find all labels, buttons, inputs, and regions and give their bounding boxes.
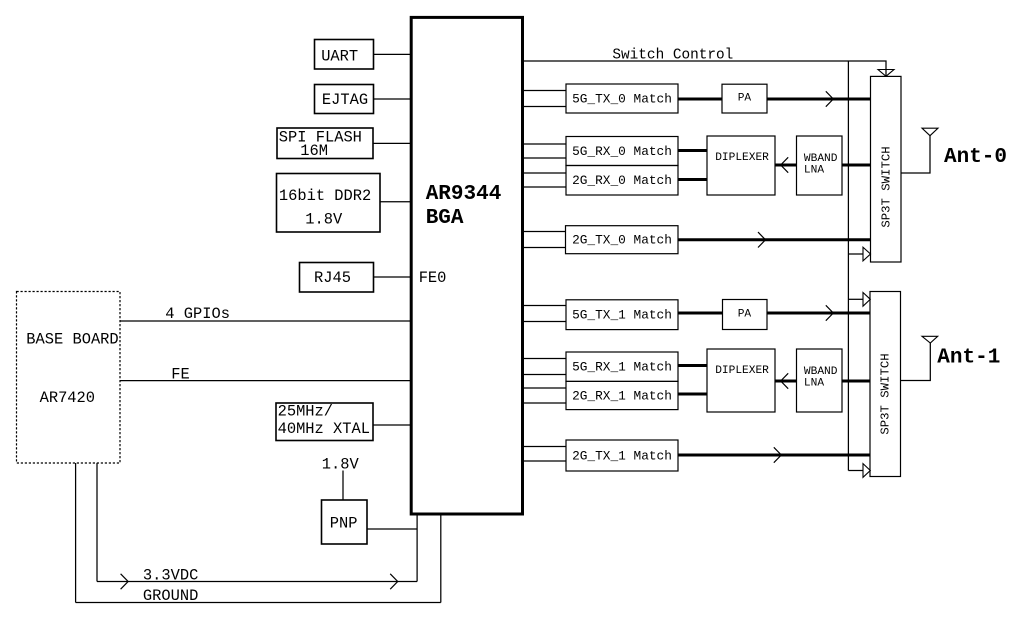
wire 4 GPIOs BASE BOARD to U1 <box>120 320 411 322</box>
block U1 AR9344 BGA <box>411 17 522 514</box>
svg-text:UART: UART <box>321 48 358 66</box>
wire PA to SW2 <box>767 312 870 315</box>
wire GROUND rail <box>76 602 441 604</box>
wire U1 to 5G_RX_1 Match pin 1 <box>523 358 566 360</box>
wire 2G_RX_0 Match to DIPLEXER <box>678 178 707 181</box>
switch SP3T SWITCH SW1 <box>871 76 902 262</box>
svg-text:25MHz/: 25MHz/ <box>278 403 333 421</box>
amplifier WBAND LNA (chain 1) <box>797 349 843 412</box>
wire U1 to 5G_RX_0 Match pin 1 <box>523 143 566 145</box>
wire PNP to U1 node <box>367 528 417 530</box>
wire U1 to 5G_TX_0 Match pin 1 <box>523 90 566 92</box>
arrow on PA wire <box>826 91 834 106</box>
wire control branch SW2 lower <box>848 470 863 472</box>
svg-text:LNA: LNA <box>804 377 824 389</box>
antenna Ant-1 <box>922 336 938 343</box>
arrow 3.3VDC right <box>390 574 398 589</box>
wire U1 to 5G_RX_0 Match pin 2 <box>523 157 566 159</box>
wire UART to U1 <box>374 53 412 55</box>
wire SW1 to antenna 0 <box>901 136 930 173</box>
svg-text:EJTAG: EJTAG <box>322 91 368 109</box>
wire 2G_TX_1 Match to SW2 <box>678 454 870 457</box>
wire switch control vertical bus <box>847 61 849 471</box>
wire 2G_RX_1 Match to DIPLEXER <box>678 393 707 396</box>
svg-text:SP3T SWITCH: SP3T SWITCH <box>879 146 893 227</box>
arrow switch control into SW1 top <box>878 70 894 77</box>
svg-text:WBAND: WBAND <box>804 153 838 165</box>
wire U1 to 2G_RX_0 Match pin 2 <box>523 186 566 188</box>
wire U1 to 5G_RX_1 Match pin 2 <box>523 374 566 376</box>
svg-text:5G_TX_1 Match: 5G_TX_1 Match <box>572 308 672 323</box>
wire 5G_TX_1 Match to PA <box>678 312 723 315</box>
arrow control into SW1 left <box>863 247 871 261</box>
wire 5G_RX_1 Match to DIPLEXER <box>678 364 707 367</box>
svg-text:16bit DDR2: 16bit DDR2 <box>279 187 371 205</box>
wire FE BASE BOARD to U1 <box>120 380 411 382</box>
wire U1 to 2G_RX_1 Match pin 1 <box>523 387 566 389</box>
block EJTAG <box>315 85 374 114</box>
wire SPI FLASH to U1 <box>373 142 411 144</box>
wire switch control horizontal <box>524 61 886 76</box>
wire 1.8V to PNP <box>342 471 344 501</box>
wire U1 to 5G_TX_0 Match pin 2 <box>523 106 566 108</box>
amplifier PA (chain 0) <box>722 84 767 113</box>
wire BASE BOARD to 3.3VDC <box>96 463 98 582</box>
svg-text:WBAND: WBAND <box>804 366 838 378</box>
svg-text:FE0: FE0 <box>419 269 447 287</box>
switch SP3T SWITCH SW2 <box>870 292 901 477</box>
wire PA to SW1 <box>767 98 871 101</box>
svg-text:1.8V: 1.8V <box>322 456 360 474</box>
svg-text:5G_RX_0 Match: 5G_RX_0 Match <box>572 144 672 159</box>
svg-text:2G_TX_1 Match: 2G_TX_1 Match <box>572 449 672 464</box>
svg-text:BGA: BGA <box>426 207 464 230</box>
wire U1 to 2G_RX_1 Match pin 2 <box>523 402 566 404</box>
svg-text:16M: 16M <box>300 142 328 160</box>
block SPI FLASH 16M <box>277 128 373 160</box>
wire WBAND LNA to DIPLEXER chain 1 <box>775 380 797 383</box>
wire 2G_TX_0 Match to SW1 <box>678 238 871 241</box>
block 5G_TX_0 Match <box>566 84 678 113</box>
svg-text:LNA: LNA <box>804 164 824 176</box>
arrow 3.3VDC left <box>121 574 129 589</box>
svg-text:5G_RX_1 Match: 5G_RX_1 Match <box>572 360 672 375</box>
block 5G_RX_1 Match <box>566 352 678 381</box>
block 2G_RX_1 Match <box>566 381 678 409</box>
wire node to U1 bottom <box>416 515 418 582</box>
svg-text:DIPLEXER: DIPLEXER <box>715 152 769 164</box>
svg-text:2G_TX_0 Match: 2G_TX_0 Match <box>572 233 672 248</box>
svg-text:PA: PA <box>738 309 752 321</box>
wire 5G_TX_0 Match to PA <box>678 98 722 101</box>
svg-text:PNP: PNP <box>330 514 358 532</box>
svg-text:DIPLEXER: DIPLEXER <box>715 365 769 377</box>
svg-text:RJ45: RJ45 <box>314 269 351 287</box>
svg-text:PA: PA <box>738 93 752 105</box>
wire XTAL to U1 <box>373 424 411 426</box>
arrow control into SW2 bottom left <box>863 464 870 478</box>
wire WBAND LNA to SW2 <box>842 380 870 383</box>
wire U1 to 5G_TX_1 Match pin 2 <box>523 321 566 323</box>
svg-text:BASE BOARD: BASE BOARD <box>26 331 118 349</box>
arrow control into SW2 left <box>863 293 870 307</box>
svg-text:1.8V: 1.8V <box>305 210 343 228</box>
arrow into DIPLEXER chain 1 <box>781 373 789 388</box>
wire RJ45 to U1 FE0 <box>374 276 412 278</box>
block 2G_TX_1 Match <box>566 440 678 471</box>
wire U1 to 5G_TX_1 Match pin 1 <box>523 305 566 307</box>
wire SW2 to antenna 1 <box>901 343 931 381</box>
wire control branch SW2 upper <box>848 298 863 300</box>
arrow on PA wire chain 1 <box>826 305 834 320</box>
amplifier PA (chain 1) <box>723 300 768 330</box>
svg-text:2G_RX_1 Match: 2G_RX_1 Match <box>572 389 672 404</box>
block 16bit DDR2 1.8V <box>277 174 381 233</box>
wire 5G_RX_0 Match to DIPLEXER <box>678 149 707 152</box>
wire U1 to 2G_RX_0 Match pin 1 <box>523 172 566 174</box>
diplexer DIPLEXER (chain 1) <box>707 349 775 412</box>
svg-text:40MHz XTAL: 40MHz XTAL <box>278 420 370 438</box>
wire EJTAG to U1 <box>374 98 412 100</box>
svg-text:AR7420: AR7420 <box>40 389 95 407</box>
amplifier WBAND LNA (chain 0) <box>797 136 843 195</box>
svg-text:2G_RX_0 Match: 2G_RX_0 Match <box>572 173 672 188</box>
svg-text:AR9344: AR9344 <box>426 183 502 206</box>
svg-text:SP3T SWITCH: SP3T SWITCH <box>879 353 893 434</box>
block UART <box>315 40 374 70</box>
wire U1 to 2G_TX_1 Match pin 1 <box>523 446 566 448</box>
block 2G_TX_0 Match <box>566 226 679 254</box>
antenna Ant-0 <box>922 128 938 136</box>
block BASE BOARD AR7420 <box>17 292 121 464</box>
arrow on 2G_TX_1 wire <box>774 447 782 462</box>
block 5G_RX_0 Match <box>566 137 678 166</box>
arrow into DIPLEXER <box>781 157 789 172</box>
wire 3.3VDC rail <box>97 581 417 583</box>
wire DDR2 to U1 <box>380 201 411 203</box>
block 5G_TX_1 Match <box>566 300 678 330</box>
wire WBAND LNA to SW1 <box>842 164 871 167</box>
svg-text:Ant-1: Ant-1 <box>937 347 1000 370</box>
wire GROUND to U1 bottom <box>440 515 442 603</box>
diplexer DIPLEXER (chain 0) <box>707 136 775 195</box>
block 25MHz/40MHz XTAL <box>276 403 373 441</box>
wire U1 to 2G_TX_0 Match pin 1 <box>523 231 566 233</box>
block RJ45 <box>300 263 374 293</box>
wire U1 to 2G_TX_1 Match pin 2 <box>523 460 566 462</box>
wire U1 to 2G_TX_0 Match pin 2 <box>523 247 566 249</box>
arrow on 2G_TX_0 wire <box>758 232 766 247</box>
wire BASE BOARD to GROUND <box>75 463 77 603</box>
svg-text:5G_TX_0 Match: 5G_TX_0 Match <box>572 92 672 107</box>
block 2G_RX_0 Match <box>566 166 678 196</box>
svg-text:Ant-0: Ant-0 <box>944 146 1007 169</box>
transistor PNP <box>322 500 368 544</box>
wire WBAND LNA to DIPLEXER <box>775 164 797 167</box>
wire control branch SW1 lower <box>848 253 863 255</box>
